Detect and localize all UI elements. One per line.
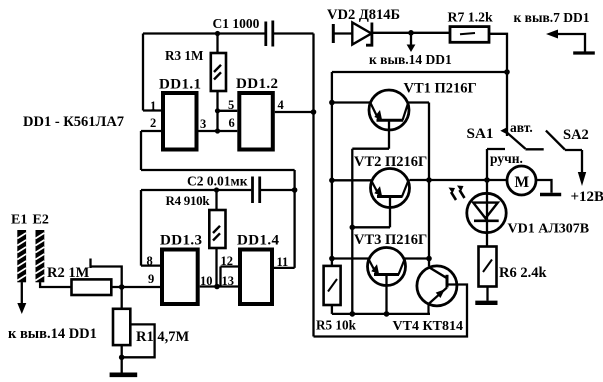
svg-text:R2 1M: R2 1M [47, 265, 90, 281]
svg-text:C1 1000: C1 1000 [213, 16, 260, 31]
node pin4 on rail [311, 109, 317, 115]
node R3 top junction [215, 31, 220, 36]
gate DD1.4 [240, 250, 272, 305]
svg-text:4: 4 [278, 98, 285, 112]
right collector rail [428, 103, 430, 267]
svg-text:DD1.4: DD1.4 [237, 233, 280, 249]
transistor VT2 [332, 169, 410, 228]
svg-text:E2: E2 [33, 213, 49, 228]
arrow +12V [578, 172, 586, 186]
wire pin5 branch [218, 110, 238, 112]
svg-text:ручн.: ручн. [490, 151, 523, 166]
wire [334, 32, 352, 34]
svg-text:М: М [515, 174, 530, 191]
svg-text:E1: E1 [11, 213, 27, 228]
node C2 right junction [292, 187, 298, 193]
wire VT2 collector to motor [410, 179, 508, 181]
svg-text:R1 4,7M: R1 4,7M [136, 329, 189, 345]
resistor R7 [450, 27, 489, 43]
ground R6 [475, 301, 497, 305]
svg-text:DD1.1: DD1.1 [159, 77, 201, 93]
node R1 tap junction [119, 355, 125, 361]
svg-text:+12В: +12В [571, 189, 603, 205]
wire pin3 to pin6 [198, 130, 237, 132]
svg-text:к выв.14 DD1: к выв.14 DD1 [369, 52, 452, 67]
wire R2 to pin 9 [111, 286, 160, 288]
VD2 left terminal [332, 24, 335, 43]
node chain bottom [350, 311, 356, 317]
wire left vertical to pin 1 [143, 34, 161, 111]
svg-text:VT4 КТ814: VT4 КТ814 [393, 319, 463, 334]
ground motor return [540, 193, 561, 196]
resistor R3 [211, 34, 226, 92]
wire top feedback C1 loop [143, 32, 265, 34]
svg-text:13: 13 [222, 274, 235, 288]
svg-text:C2 0.01мк: C2 0.01мк [187, 174, 248, 189]
wire pin12 stub [221, 267, 239, 287]
svg-text:1: 1 [150, 99, 156, 113]
wire C2 left loop to pin 8 [141, 190, 251, 266]
svg-text:R5 10k: R5 10k [316, 318, 357, 333]
wire [274, 32, 314, 34]
wire base rail top link [332, 71, 507, 73]
svg-text:3: 3 [200, 117, 206, 131]
svg-text:2: 2 [150, 116, 156, 130]
svg-text:12: 12 [221, 254, 234, 268]
wire R3 bottom to gate inputs [216, 91, 218, 131]
node VT3 emitter [384, 311, 390, 317]
electrode E2 [36, 230, 45, 282]
svg-text:авт.: авт. [510, 120, 533, 135]
wire VD2 to R7 [373, 32, 450, 34]
LED light arrows [449, 186, 465, 201]
capacitor C1 [266, 21, 273, 47]
wire pin2 to DD1.4 output link [141, 169, 295, 171]
wire R7 to SA1 [489, 34, 507, 136]
node R7 output junction [504, 69, 510, 75]
resistor R1 [113, 287, 130, 345]
R1 side tap loop [122, 324, 155, 357]
wire C2 right [261, 189, 295, 191]
svg-text:DD1 - К561ЛА7: DD1 - К561ЛА7 [23, 114, 124, 130]
capacitor C2 [253, 177, 260, 204]
wire R1 to ground [121, 345, 123, 373]
switch SA1 [500, 127, 543, 149]
emitter bottom rail [332, 313, 430, 315]
node VT2 emitter junction [350, 225, 356, 231]
svg-text:VT2 П216Г: VT2 П216Г [354, 154, 427, 170]
zener diode VD2 [352, 23, 372, 46]
svg-text:к выв.7 DD1: к выв.7 DD1 [514, 10, 590, 25]
transistor VT3 [332, 248, 429, 314]
transistor VT1 [332, 90, 429, 149]
wire vertical pin11 link [293, 170, 295, 268]
open terminal above R2 [91, 259, 122, 288]
wire pin 4 output [275, 111, 314, 113]
resistor R5 [324, 266, 341, 314]
base rail vertical [331, 72, 333, 266]
switch SA2 [546, 131, 582, 174]
resistor R6 [479, 247, 497, 301]
electrode E1 [17, 230, 26, 282]
LED VD1 [467, 193, 506, 232]
ground pin 7 [573, 51, 595, 54]
resistor R2 [72, 279, 112, 295]
gate DD1.2 [239, 93, 272, 150]
svg-text:SA1: SA1 [467, 125, 494, 142]
arrow to pin 14 [17, 303, 26, 314]
node ручн column [484, 177, 490, 183]
svg-text:R3 1M: R3 1M [165, 48, 204, 63]
wire R4 bottom [215, 248, 217, 287]
node supply tap [408, 30, 414, 36]
wire VT2 emitter [352, 226, 390, 228]
ручн contact [487, 149, 505, 247]
node R2 output [119, 284, 125, 290]
node VT2 base [329, 178, 335, 184]
node VT1 base [329, 100, 335, 106]
wire ground to pin 7 with arrow [557, 34, 585, 52]
node R3 to pin5 junction [215, 108, 220, 113]
resistor R4 [209, 190, 225, 248]
wire right vertical rail (pin4 / C1 / VT4 emitter) [312, 34, 314, 337]
motor M [507, 166, 552, 195]
svg-text:6: 6 [229, 116, 235, 130]
wire pin 2 down link [141, 131, 161, 170]
svg-text:R6 2.4k: R6 2.4k [499, 265, 547, 281]
node R4 top [214, 187, 219, 192]
node VT3 collector on rail [426, 256, 432, 262]
transistor VT4 [314, 266, 468, 337]
svg-text:DD1.3: DD1.3 [160, 233, 202, 249]
wire pin10 to pin13 [200, 285, 238, 287]
svg-text:9: 9 [148, 272, 154, 286]
svg-text:к выв.14 DD1: к выв.14 DD1 [8, 326, 97, 342]
wire VT1 emitter chain [352, 149, 389, 314]
svg-text:R4 910k: R4 910k [166, 193, 211, 208]
svg-text:DD1.2: DD1.2 [236, 76, 278, 92]
svg-text:8: 8 [147, 254, 153, 268]
svg-text:11: 11 [277, 255, 289, 269]
node VT2 collector on rail [426, 177, 432, 183]
svg-text:VT1 П216Г: VT1 П216Г [404, 81, 477, 97]
gate DD1.1 [163, 93, 197, 150]
svg-text:5: 5 [228, 98, 234, 112]
wire pin 11 out [274, 267, 295, 269]
node R4 bottom [214, 284, 220, 290]
node pin3 pin6 junction [215, 128, 220, 133]
node VT3 base [329, 256, 335, 262]
arrow to pin 14 supply [410, 33, 412, 45]
wire E2 to R2 [40, 282, 71, 287]
wire E1 to pin14 arrow [21, 282, 23, 304]
svg-text:VT3 П216Г: VT3 П216Г [354, 232, 427, 248]
ground under R1 [110, 372, 138, 377]
gate DD1.3 [162, 250, 198, 305]
svg-text:R7 1.2k: R7 1.2k [448, 10, 494, 25]
svg-text:VD1 АЛ307В: VD1 АЛ307В [508, 222, 590, 237]
svg-text:VD2 Д814Б: VD2 Д814Б [327, 7, 400, 23]
svg-text:SA2: SA2 [563, 127, 589, 143]
